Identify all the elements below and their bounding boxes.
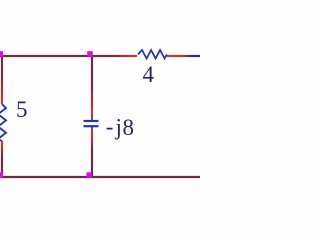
svg-text:5: 5 <box>16 97 28 122</box>
svg-text:4: 4 <box>143 62 155 87</box>
wire: middle vertical, below capacitor C1 <box>91 131 93 177</box>
capacitor C1 top lead stub <box>91 115 93 120</box>
node: top-middle junction <box>87 51 93 57</box>
svg-text:-: - <box>106 114 114 139</box>
svg-text:j: j <box>115 115 122 140</box>
capacitor C1 bottom lead stub <box>91 127 93 132</box>
wire: left vertical, below resistor R1 <box>1 141 3 177</box>
resistor R1 zigzag (5 ohm, left branch) <box>0 104 6 141</box>
resistor R2 zigzag (4 ohm, top branch) <box>138 50 167 59</box>
wire: top horizontal, resistor R2 to right edge <box>167 55 200 57</box>
wire: bottom horizontal rail <box>0 176 200 178</box>
node: bottom-middle junction <box>86 172 92 178</box>
wire: middle vertical, above capacitor C1 <box>91 55 93 116</box>
node: top-left junction <box>0 51 3 57</box>
capacitor C1 top plate <box>84 120 99 122</box>
svg-text:8: 8 <box>123 115 135 140</box>
wire: left vertical, above resistor R1 <box>1 55 3 104</box>
wire: top horizontal, left node to resistor R2 <box>0 55 137 57</box>
capacitor C1 bottom plate <box>84 125 99 127</box>
node: bottom-left junction <box>0 172 3 178</box>
